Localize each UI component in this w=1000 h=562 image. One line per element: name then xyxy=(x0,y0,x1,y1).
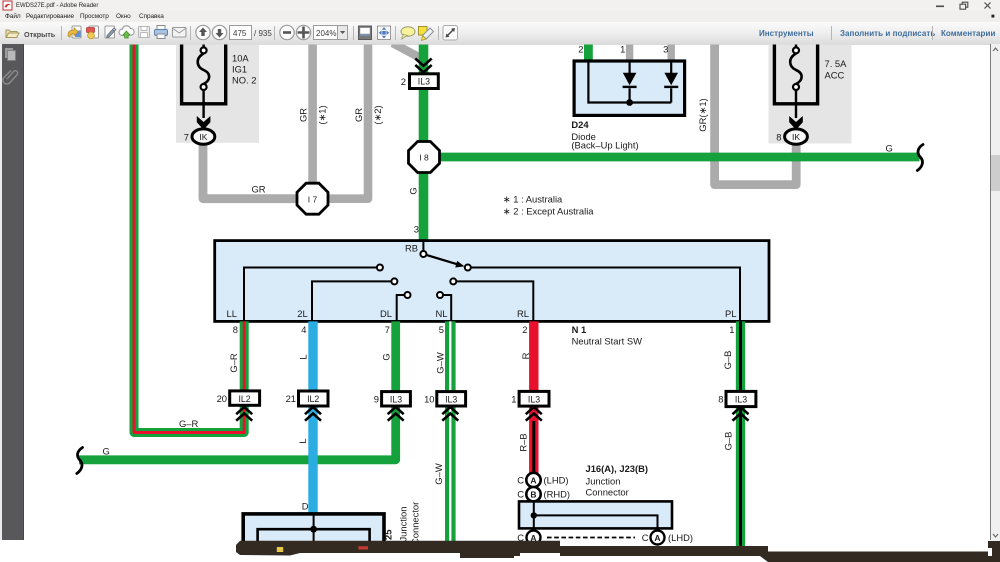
svg-text:RB: RB xyxy=(405,243,418,254)
node dot J25 xyxy=(310,526,317,533)
svg-text:(RHD): (RHD) xyxy=(544,489,571,500)
svg-text:G–W: G–W xyxy=(434,352,445,374)
connector ring B (RHD) xyxy=(526,487,540,501)
node dot xyxy=(626,99,633,106)
svg-text:D24: D24 xyxy=(571,119,589,130)
wire GR(*1) right branch to connector 8 IK xyxy=(715,44,797,185)
wire break squiggle left xyxy=(77,448,83,474)
wire GR from connector 7 IK to junction I7 xyxy=(203,141,313,199)
dashed link A-A xyxy=(547,537,635,539)
connector row: 1 IL3 xyxy=(511,391,549,420)
svg-text:IL2: IL2 xyxy=(307,394,319,404)
svg-text:J16(A), J23(B): J16(A), J23(B) xyxy=(586,463,649,474)
D24 internal circuit xyxy=(588,61,678,103)
connector row: 9 IL3 xyxy=(374,392,411,421)
wire break squiggle right xyxy=(917,145,923,171)
label 7.5A ACC xyxy=(825,58,848,81)
title bar xyxy=(0,0,1000,11)
svg-text:7. 5A: 7. 5A xyxy=(825,58,848,69)
connector row: 10 IL3 xyxy=(424,392,466,421)
connector box 2 IL3 xyxy=(401,74,439,89)
svg-text:D: D xyxy=(302,501,309,512)
wire G-R : N1 pin8 down, around to left and up xyxy=(134,44,244,433)
svg-text:1: 1 xyxy=(511,394,516,405)
svg-text:GR: GR xyxy=(353,108,364,122)
svg-text:N 1: N 1 xyxy=(572,324,587,335)
svg-text:Junction: Junction xyxy=(586,476,621,487)
wire G (DL) + bottom G horizontal from break xyxy=(79,321,396,459)
red speck xyxy=(358,546,368,549)
N1 contact points xyxy=(377,265,471,299)
N1 switch pivot xyxy=(420,251,426,257)
bottom row C A ... C A (LHD) xyxy=(527,531,541,545)
N1 contact line DL xyxy=(397,295,405,321)
svg-text:IL3: IL3 xyxy=(735,395,747,405)
connector row: 21 IL2 xyxy=(286,391,328,421)
svg-text:A: A xyxy=(654,533,660,543)
svg-text:(∗2): (∗2) xyxy=(372,105,383,124)
svg-text:21: 21 xyxy=(286,393,296,404)
svg-text:L: L xyxy=(297,438,308,443)
N1 contact line PL xyxy=(471,268,740,322)
label 10A IG1 NO.2 xyxy=(232,53,257,86)
nav: page down xyxy=(212,25,226,39)
svg-text:3: 3 xyxy=(414,224,419,235)
open folder icon xyxy=(6,30,19,38)
svg-text:20: 20 xyxy=(217,393,227,404)
fuse F (10A IG1 NO.2) xyxy=(182,20,226,118)
comment bubble xyxy=(401,27,415,39)
node dot J16 xyxy=(531,512,537,518)
svg-text:9: 9 xyxy=(374,394,379,405)
label J25 Junction Connector (rotated) xyxy=(383,502,421,545)
svg-text:2: 2 xyxy=(401,76,406,87)
svg-text:∗ 1 : Australia: ∗ 1 : Australia xyxy=(503,194,563,205)
junction connector J16(A) J23(B) xyxy=(517,463,693,545)
wire R / R-B (RL) xyxy=(529,321,538,473)
pin labels xyxy=(578,44,668,55)
svg-text:I 8: I 8 xyxy=(419,153,429,163)
label D24 Diode (Back-Up Light) xyxy=(571,119,638,151)
svg-text:G–B: G–B xyxy=(722,351,733,370)
svg-text:ACC: ACC xyxy=(825,70,845,81)
wire G-W (NL) xyxy=(445,321,456,541)
page number box xyxy=(230,26,252,40)
icon: send file (doc + yellow arrow) xyxy=(68,26,81,38)
N1 contact line 2L xyxy=(312,281,391,321)
rotated wire labels above connectors xyxy=(228,351,733,374)
connector oval 7 IK xyxy=(184,129,215,144)
N1 switch arm arrowhead xyxy=(455,261,464,268)
wire GR(*2) vertical into I7 xyxy=(327,44,368,199)
svg-text:7: 7 xyxy=(385,324,390,335)
N1 contact line RL xyxy=(457,281,534,321)
svg-text:IL3: IL3 xyxy=(445,394,457,404)
icon: save (disabled) xyxy=(139,27,150,38)
pin wire 2 (G) xyxy=(584,44,593,61)
svg-text:7: 7 xyxy=(184,131,189,142)
wire G-B (PL) xyxy=(736,321,745,546)
svg-text:IL3: IL3 xyxy=(528,394,540,404)
N1 pin numbers xyxy=(233,324,735,335)
pin wire 1 (gray) xyxy=(626,44,633,61)
svg-text:GR(∗1): GR(∗1) xyxy=(697,98,708,131)
svg-text:B: B xyxy=(530,490,536,500)
wire gray diagonal into connector 2 IL3 xyxy=(393,43,422,59)
svg-text:G–R: G–R xyxy=(228,353,239,373)
svg-text:G: G xyxy=(381,353,392,360)
chevron arrow into 2 IL3 xyxy=(415,59,431,73)
svg-text:C: C xyxy=(517,475,524,486)
N1 terminal labels xyxy=(227,243,737,320)
connector row: 20 IL2 xyxy=(217,391,260,421)
svg-text:2L: 2L xyxy=(297,308,307,319)
svg-text:R–B: R–B xyxy=(518,433,529,451)
scrollbar xyxy=(990,44,991,540)
svg-text:Neutral Start SW: Neutral Start SW xyxy=(572,336,642,347)
svg-text:10: 10 xyxy=(424,394,434,405)
svg-text:I 7: I 7 xyxy=(308,194,318,204)
yellow speck xyxy=(277,547,283,552)
svg-text:1: 1 xyxy=(620,44,625,55)
svg-text:(∗1): (∗1) xyxy=(317,105,328,124)
svg-text:1: 1 xyxy=(729,324,734,335)
N1 contact line LL xyxy=(244,268,377,322)
svg-text:G–W: G–W xyxy=(433,463,444,485)
diode D24-1 xyxy=(623,73,637,86)
icon: cloud upload xyxy=(119,26,134,38)
svg-text:IK: IK xyxy=(792,132,800,142)
N1 feed stub from RB pin xyxy=(422,241,424,251)
svg-text:10A: 10A xyxy=(232,53,249,64)
svg-text:IK: IK xyxy=(199,132,207,142)
switch N1 Neutral Start SW box xyxy=(215,241,769,322)
expand arrows icon xyxy=(443,26,458,41)
svg-text:IL3: IL3 xyxy=(390,394,402,404)
svg-text:PL: PL xyxy=(725,308,736,319)
zoom in xyxy=(296,25,310,39)
svg-text:G: G xyxy=(408,187,419,194)
svg-text:5: 5 xyxy=(439,324,444,335)
svg-text:G–B: G–B xyxy=(723,432,734,451)
icon: email xyxy=(173,28,187,38)
label N1 Neutral Start SW xyxy=(572,324,642,347)
icon: export pdf xyxy=(87,26,99,39)
shaded region right fuse block xyxy=(769,44,852,144)
label GR (*1) xyxy=(298,98,709,131)
svg-text:IL2: IL2 xyxy=(238,394,250,404)
icon: print xyxy=(155,26,168,39)
nav: page up xyxy=(196,25,210,39)
toolbar xyxy=(0,22,1000,45)
connector oval 8 IK xyxy=(776,129,807,144)
D24 diode box xyxy=(571,44,684,151)
svg-text:Junction: Junction xyxy=(398,507,409,542)
zoom out xyxy=(280,25,294,39)
white notch xyxy=(514,556,524,562)
diode D24-2 xyxy=(664,73,678,86)
svg-text:G: G xyxy=(886,143,893,154)
svg-text:LL: LL xyxy=(227,308,237,319)
svg-text:GR: GR xyxy=(298,108,309,122)
svg-text:∗ 2 : Except Australia: ∗ 2 : Except Australia xyxy=(503,206,594,217)
sidebar xyxy=(2,44,24,540)
svg-text:R: R xyxy=(520,352,531,359)
zoom value box xyxy=(314,26,338,40)
svg-text:2: 2 xyxy=(522,324,527,335)
pin wire 3 (gray) xyxy=(668,44,675,61)
svg-text:(Back–Up Light): (Back–Up Light) xyxy=(571,140,638,151)
wire G vertical from top through I8 to N1 xyxy=(419,44,429,241)
svg-text:IG1: IG1 xyxy=(232,64,247,75)
page view icon xyxy=(359,26,372,40)
junction I8 xyxy=(409,142,440,173)
svg-text:25: 25 xyxy=(383,530,394,540)
wire L (2L) blue xyxy=(308,321,317,514)
svg-text:GR: GR xyxy=(252,184,266,195)
junction I7 xyxy=(297,183,328,214)
arrowhead into connector 8 IK xyxy=(789,116,803,130)
N1 contact line NL xyxy=(443,295,451,321)
shaded region left fuse block xyxy=(176,44,259,143)
svg-text:8: 8 xyxy=(776,131,781,142)
rotated wire labels below connectors xyxy=(297,432,734,485)
icon: fill and sign xyxy=(105,26,116,38)
svg-text:Connector: Connector xyxy=(586,487,629,498)
fit window icon xyxy=(378,26,391,40)
junction connector J25 box xyxy=(243,501,420,547)
svg-text:C: C xyxy=(517,489,524,500)
svg-text:G–R: G–R xyxy=(179,418,199,429)
svg-text:(LHD): (LHD) xyxy=(668,532,693,543)
svg-text:RL: RL xyxy=(517,308,529,319)
svg-text:2: 2 xyxy=(578,44,583,55)
N1 switch arm xyxy=(426,255,457,264)
svg-text:C: C xyxy=(642,532,649,543)
J16 internal wire xyxy=(534,501,658,531)
svg-text:IL3: IL3 xyxy=(418,77,430,87)
svg-text:L: L xyxy=(298,354,309,359)
wire GR(*1) vertical xyxy=(308,44,317,199)
note *1 Australia / *2 Except Australia xyxy=(503,194,594,217)
svg-text:3: 3 xyxy=(663,44,668,55)
svg-text:Connector: Connector xyxy=(410,502,421,545)
svg-text:DL: DL xyxy=(380,308,392,319)
fuse ACC (7.5A) xyxy=(774,20,817,118)
svg-text:(LHD): (LHD) xyxy=(544,475,569,486)
comment pen bubble xyxy=(419,27,434,41)
wire G horizontal from I8 to break xyxy=(424,153,920,162)
svg-text:NL: NL xyxy=(436,308,448,319)
menu bar xyxy=(0,11,1000,22)
svg-text:4: 4 xyxy=(301,324,306,335)
connector ring A (LHD) xyxy=(526,473,540,487)
svg-text:8: 8 xyxy=(718,394,723,405)
svg-text:8: 8 xyxy=(233,324,238,335)
svg-text:A: A xyxy=(530,475,536,485)
svg-text:NO. 2: NO. 2 xyxy=(232,75,257,86)
arrowhead into connector 7 IK xyxy=(197,116,211,130)
svg-text:G: G xyxy=(103,446,110,457)
dark band (page content below) xyxy=(236,541,990,562)
connector row: 8 IL3 xyxy=(718,391,756,420)
